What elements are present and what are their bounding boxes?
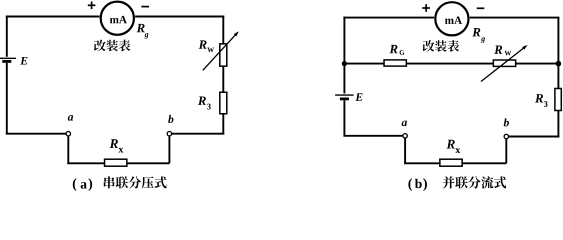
wire top-left segment (b): [343, 17, 434, 19]
rheostat RW (b): [481, 45, 528, 82]
resistor R3 (a): [220, 92, 227, 114]
label RW (b): [494, 46, 511, 56]
label gaizhuangbiao (b): [423, 40, 459, 52]
wire shunt branch left (b): [344, 63, 384, 65]
resistor Rx (a): [105, 159, 127, 166]
wire drop from terminal a (a): [67, 136, 69, 163]
node terminal a (b): [403, 134, 407, 138]
label Rw (a): [199, 40, 215, 52]
wire rise to terminal b (b): [505, 139, 507, 164]
label RG (b): [389, 45, 404, 55]
wire shunt branch right (b): [516, 63, 559, 65]
node terminal b (a): [167, 132, 171, 136]
label Rg (b): [472, 28, 485, 43]
wire top-right segment (a): ammeter to rheostat branch: [135, 16, 224, 18]
wire right side lower (a): [222, 114, 224, 134]
label R3 (a): [198, 97, 211, 110]
label E (b): [355, 93, 362, 101]
label a (b): [402, 121, 407, 127]
wire bottom rail right (a): terminal b to rheostat branch: [172, 133, 225, 135]
node terminal a (a): [66, 132, 70, 136]
label plus polarity (a): [88, 2, 96, 10]
wire left side lower (a): [6, 63, 8, 134]
wire bottom rail left (a): to terminal a: [6, 133, 66, 135]
wire bottom loop left (b): [404, 162, 441, 164]
wire drop from terminal a (b): [404, 138, 406, 163]
wire right side lower (b): [557, 111, 559, 137]
label Rx (a): [110, 139, 124, 152]
wire rise to terminal b (a): [168, 136, 170, 163]
label plus polarity (b): [422, 4, 430, 12]
wire left side upper (b): [343, 17, 345, 64]
caption b: binglian fenliushi: [408, 176, 506, 191]
label Rg (a): [137, 24, 149, 39]
wire right side upper (b): [557, 18, 559, 64]
label E (a): [20, 57, 27, 65]
wire between Rw and R3 (a): [222, 66, 224, 92]
wire bottom loop left (a): [67, 162, 105, 164]
node terminal b (b): [504, 134, 508, 138]
wire left side upper (a): [6, 16, 8, 57]
battery E1 (a): [0, 58, 16, 61]
battery E2 (b): [335, 95, 354, 99]
wire left side middle (b): junction to battery: [343, 64, 345, 94]
caption a: chuanlian fenyashi: [73, 176, 167, 191]
wire right side middle (b): junction to R3: [557, 64, 559, 89]
node junction left (b): [342, 61, 347, 66]
wire bottom rail left (b): to terminal a: [343, 135, 403, 137]
wire left side lower (b): [343, 100, 345, 135]
resistor RX (b): [440, 159, 462, 166]
rheostat Rw (a): [203, 31, 239, 70]
label a (a): [68, 115, 73, 121]
ammeter U1 mA: [101, 2, 134, 35]
label b (b): [504, 118, 509, 126]
ammeter U2 mA: [435, 2, 468, 35]
label b (a): [168, 115, 173, 123]
resistor RG (b): [384, 60, 406, 66]
wire bottom rail right (b): terminal b to right side: [509, 136, 560, 138]
wire top-right segment (b): [470, 17, 560, 19]
node junction right (b): [556, 61, 562, 67]
label minus polarity (a): [141, 6, 149, 8]
wire right side upper (a): [222, 17, 224, 45]
label gaizhuangbiao (a): [94, 40, 130, 52]
wire shunt branch middle (b): [406, 63, 494, 65]
label RX (b): [446, 140, 460, 153]
label R3 (b): [535, 94, 548, 107]
resistor R3 (b): [555, 89, 561, 111]
wire bottom loop right (b): [462, 162, 506, 164]
label minus polarity (b): [477, 7, 485, 9]
wire top-left segment (a): battery positive to ammeter: [6, 16, 100, 18]
wire bottom loop right (a): [127, 162, 169, 164]
